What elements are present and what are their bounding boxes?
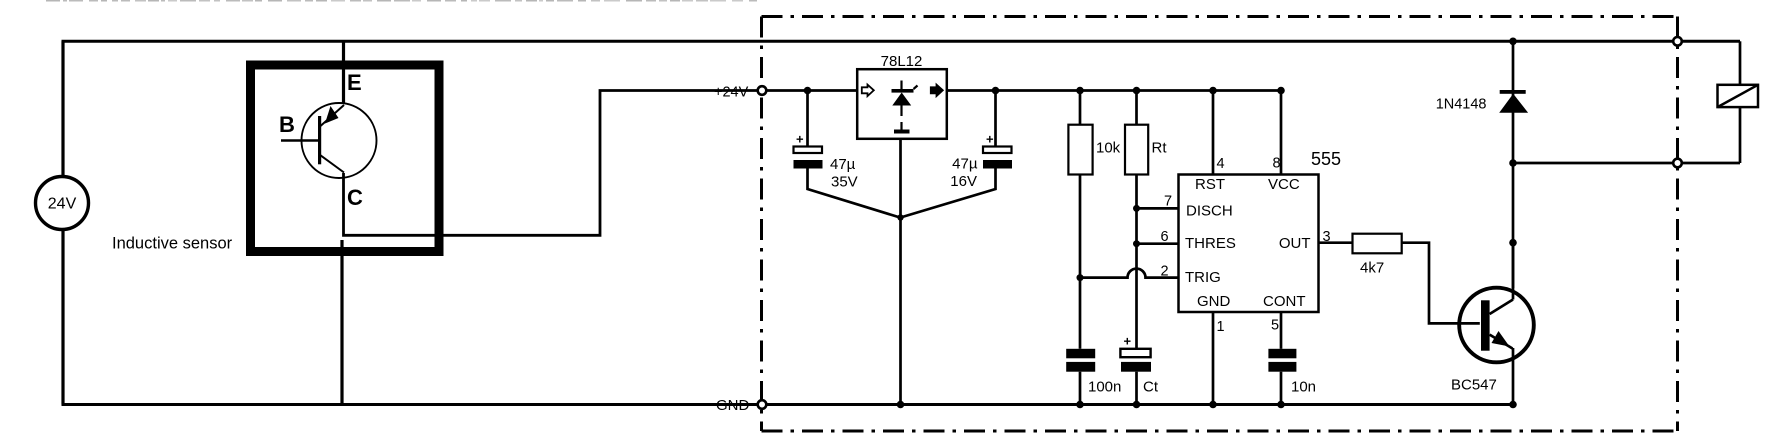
svg-text:1: 1: [1217, 319, 1225, 335]
svg-text:4: 4: [1217, 156, 1225, 172]
svg-text:C: C: [347, 185, 363, 210]
svg-text:OUT: OUT: [1279, 235, 1311, 252]
svg-text:+24V: +24V: [714, 85, 749, 101]
svg-text:78L12: 78L12: [881, 53, 923, 70]
svg-text:5: 5: [1271, 318, 1279, 334]
svg-text:E: E: [347, 70, 362, 95]
svg-text:47µ: 47µ: [830, 156, 856, 173]
svg-text:7: 7: [1164, 194, 1172, 210]
svg-text:3: 3: [1323, 229, 1331, 245]
svg-text:2: 2: [1161, 264, 1169, 280]
svg-text:RST: RST: [1195, 176, 1225, 193]
svg-text:1N4148: 1N4148: [1436, 97, 1487, 113]
svg-text:GND: GND: [1197, 293, 1231, 310]
svg-text:+: +: [986, 132, 994, 147]
svg-text:+: +: [796, 132, 804, 147]
svg-text:B: B: [279, 112, 295, 137]
svg-text:4k7: 4k7: [1360, 260, 1384, 277]
svg-text:35V: 35V: [831, 174, 858, 191]
svg-text:BC547: BC547: [1451, 377, 1497, 394]
svg-text:10n: 10n: [1291, 379, 1316, 396]
svg-text:100n: 100n: [1088, 379, 1121, 396]
svg-text:DISCH: DISCH: [1186, 202, 1233, 219]
svg-text:6: 6: [1161, 229, 1169, 245]
svg-text:VCC: VCC: [1268, 176, 1300, 193]
svg-text:10k: 10k: [1096, 140, 1121, 157]
svg-text:THRES: THRES: [1185, 235, 1236, 252]
svg-text:GND: GND: [716, 397, 750, 414]
svg-text:16V: 16V: [950, 173, 977, 190]
svg-text:TRIG: TRIG: [1185, 269, 1221, 286]
svg-text:8: 8: [1273, 156, 1281, 172]
svg-text:24V: 24V: [48, 196, 77, 213]
svg-text:Ct: Ct: [1143, 379, 1159, 396]
svg-text:CONT: CONT: [1263, 293, 1306, 310]
svg-text:47µ: 47µ: [952, 156, 978, 173]
svg-text:555: 555: [1311, 149, 1341, 169]
svg-text:Rt: Rt: [1152, 140, 1168, 157]
svg-text:Inductive sensor: Inductive sensor: [112, 235, 233, 253]
svg-text:+: +: [1124, 334, 1132, 349]
